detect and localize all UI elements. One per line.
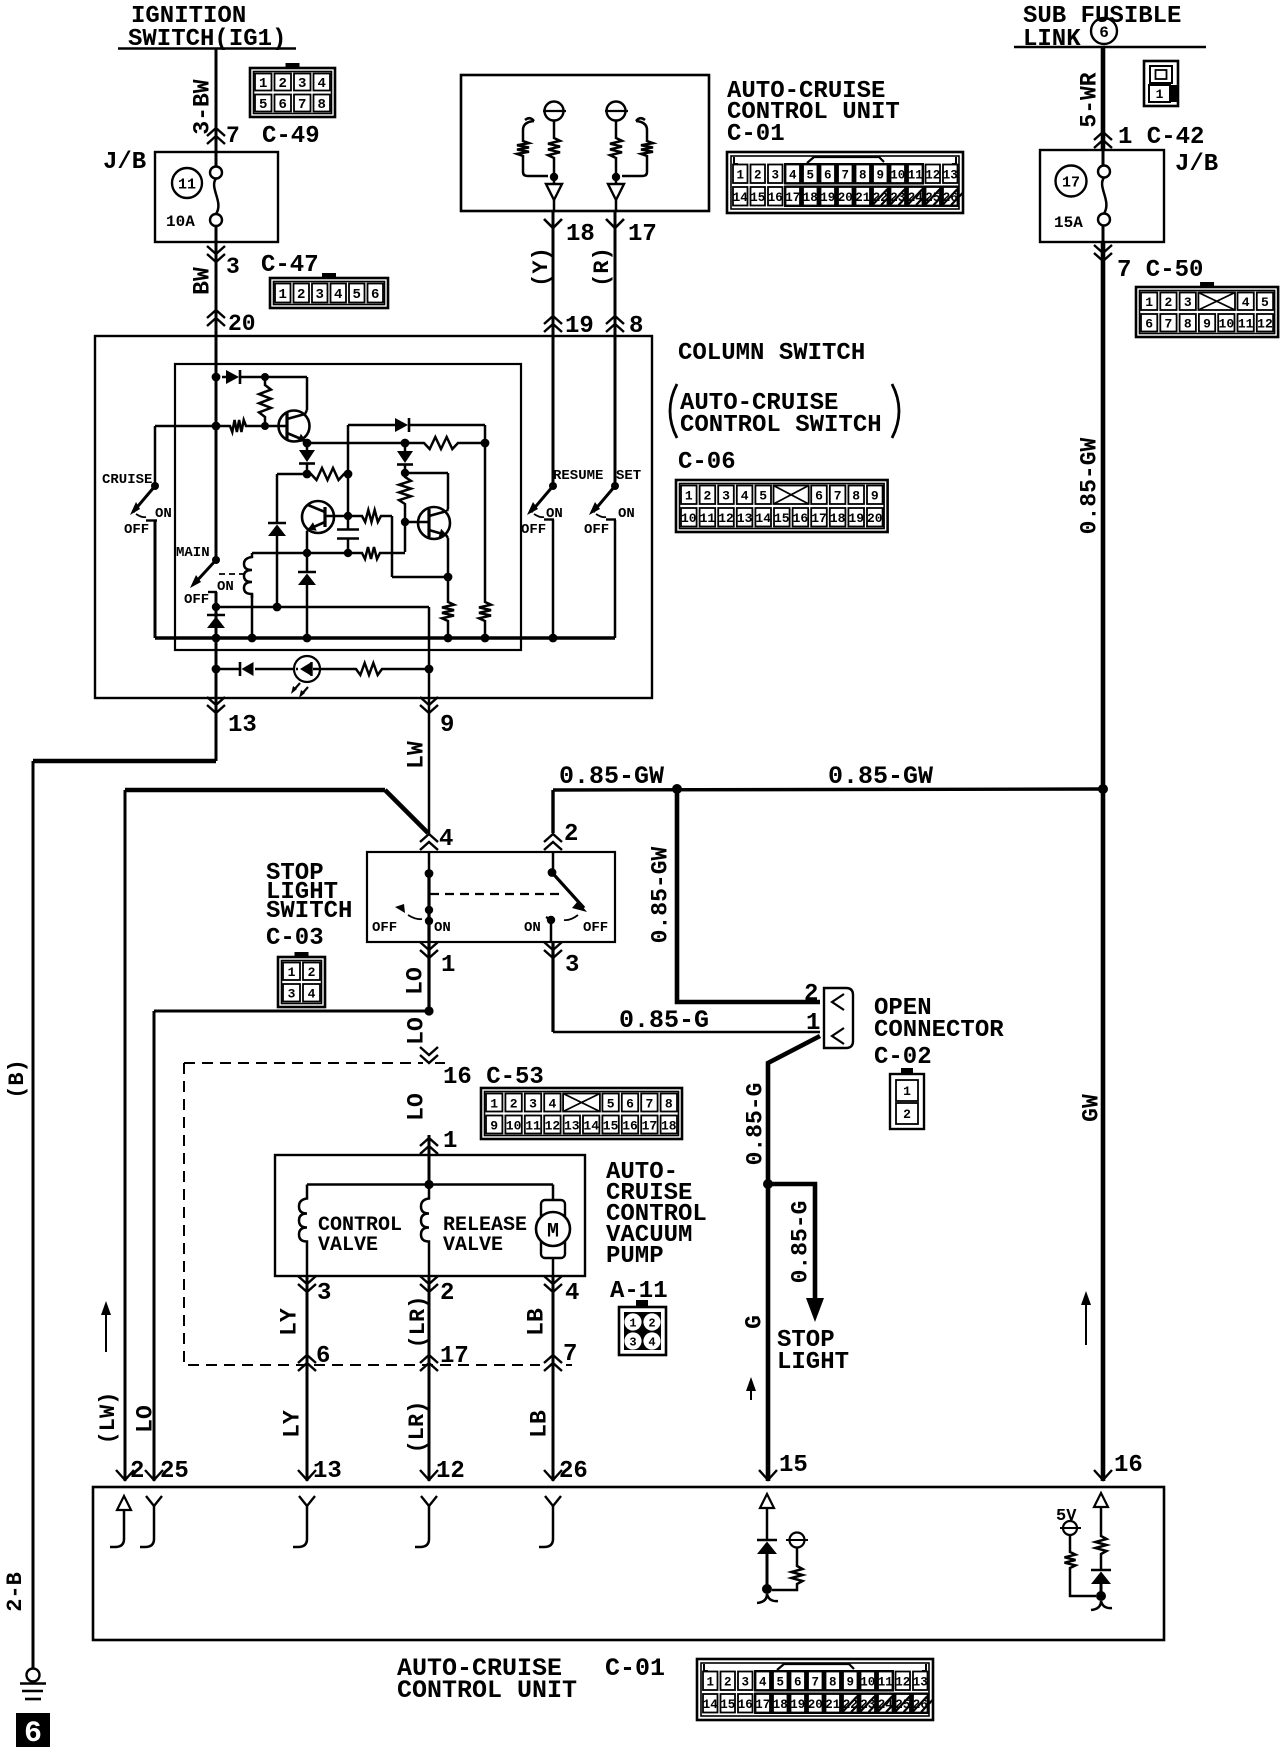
svg-text:3: 3 xyxy=(722,489,730,504)
pin 25 entry xyxy=(145,1470,163,1480)
terminal pin 13 xyxy=(299,1496,315,1506)
svg-text:3: 3 xyxy=(226,254,240,280)
svg-text:CONTROL UNIT: CONTROL UNIT xyxy=(397,1676,577,1705)
svg-text:8: 8 xyxy=(665,1096,673,1111)
svg-text:13: 13 xyxy=(913,1676,928,1690)
svg-text:18: 18 xyxy=(830,511,846,526)
svg-text:7: 7 xyxy=(645,1096,653,1111)
svg-text:17: 17 xyxy=(440,1343,469,1370)
wire 0.85-G to stop light xyxy=(768,1184,815,1300)
junction cruise line x216 xyxy=(212,422,221,431)
open connector C-02 symbol xyxy=(824,988,853,1048)
svg-text:11: 11 xyxy=(700,511,716,526)
svg-text:3: 3 xyxy=(741,1676,749,1690)
svg-text:ON: ON xyxy=(434,920,451,936)
svg-text:COLUMN SWITCH: COLUMN SWITCH xyxy=(678,340,865,367)
svg-text:21: 21 xyxy=(825,1698,840,1712)
wire (R) xyxy=(614,258,617,336)
svg-text:BW: BW xyxy=(189,267,215,295)
wire x307 down through diode D8 xyxy=(306,531,309,572)
junction pin18 xyxy=(550,173,558,181)
wire Q2 base to node C xyxy=(325,515,348,518)
svg-text:RESUME: RESUME xyxy=(553,468,603,484)
wire CRUISE base line xyxy=(155,425,226,428)
wire Q3 collector up xyxy=(447,473,450,509)
connector C-50 xyxy=(1136,287,1278,337)
svg-text:7: 7 xyxy=(563,1341,577,1368)
svg-text:4: 4 xyxy=(548,1096,556,1111)
svg-text:SET: SET xyxy=(616,468,641,484)
svg-text:20: 20 xyxy=(228,311,256,337)
svg-text:VALVE: VALVE xyxy=(318,1234,378,1257)
svg-text:17: 17 xyxy=(785,191,800,205)
svg-text:OFF: OFF xyxy=(184,592,209,608)
svg-text:LO: LO xyxy=(402,967,428,995)
svg-text:9: 9 xyxy=(1203,317,1211,332)
svg-text:12: 12 xyxy=(718,511,734,526)
svg-text:2: 2 xyxy=(648,1317,655,1331)
resistor pin15 branch xyxy=(792,1562,803,1588)
svg-text:(B): (B) xyxy=(5,1059,30,1099)
svg-text:15: 15 xyxy=(774,511,790,526)
svg-text:9: 9 xyxy=(846,1676,854,1690)
pin 17 terminal xyxy=(615,200,618,211)
svg-text:10: 10 xyxy=(681,511,697,526)
resistor R7 vertical xyxy=(399,473,411,508)
svg-text:4: 4 xyxy=(308,987,316,1002)
pole1 OFF arrow xyxy=(395,904,405,913)
svg-text:13: 13 xyxy=(313,1458,342,1485)
svg-text:1: 1 xyxy=(1145,295,1153,310)
svg-text:2: 2 xyxy=(510,1096,518,1111)
diode D3 xyxy=(268,522,286,525)
pin 2 entry xyxy=(116,1470,134,1480)
wire ignition feed inside column switch xyxy=(215,336,218,560)
svg-text:19: 19 xyxy=(820,191,835,205)
svg-text:LO: LO xyxy=(403,1017,429,1045)
box column switch inner xyxy=(175,364,521,650)
pin 4 chevron xyxy=(420,834,438,842)
svg-text:6: 6 xyxy=(794,1676,802,1690)
svg-text:5: 5 xyxy=(259,97,267,113)
junction pin17 xyxy=(612,173,620,181)
terminal circle pin17 branch xyxy=(607,102,626,121)
svg-text:15: 15 xyxy=(779,1452,808,1479)
terminal circle pin18 branch xyxy=(545,102,564,121)
box STOP LIGHT SWITCH xyxy=(367,852,615,942)
wire 0.85-G from open connector xyxy=(768,1036,820,1481)
transistor Q2 xyxy=(302,501,334,533)
svg-text:10: 10 xyxy=(1219,317,1235,332)
LED indicator branch xyxy=(212,665,221,674)
junction x448 y577 xyxy=(444,573,453,582)
transistor Q1 xyxy=(279,411,310,442)
svg-text:26: 26 xyxy=(559,1458,588,1485)
svg-text:20: 20 xyxy=(867,511,883,526)
svg-text:1: 1 xyxy=(903,1084,911,1099)
resistor pin18 branch xyxy=(553,120,556,134)
svg-text:(Y): (Y) xyxy=(529,247,554,287)
pin 6 chevron xyxy=(298,1355,316,1363)
svg-text:12: 12 xyxy=(436,1458,465,1485)
svg-text:9: 9 xyxy=(490,1118,498,1133)
svg-text:3: 3 xyxy=(771,169,779,183)
pump pin wires xyxy=(306,1256,309,1277)
svg-text:C-01: C-01 xyxy=(605,1654,665,1683)
wire x348 up and diode D4 to x485 xyxy=(347,425,350,474)
svg-text:6: 6 xyxy=(824,169,832,183)
svg-text:7: 7 xyxy=(811,1676,819,1690)
fuse 11 10A xyxy=(172,168,202,198)
svg-text:C-47: C-47 xyxy=(261,252,319,279)
connector C-49 xyxy=(250,68,335,117)
wire BW xyxy=(215,242,218,336)
terminal pin 25 xyxy=(146,1496,162,1506)
wire pump feed xyxy=(428,1135,431,1184)
svg-text:C-01: C-01 xyxy=(727,121,785,148)
svg-text:OFF: OFF xyxy=(372,920,397,936)
svg-text:9: 9 xyxy=(876,169,884,183)
fuse 17 15A xyxy=(1056,166,1087,197)
svg-text:14: 14 xyxy=(583,1118,599,1133)
svg-text:(LR): (LR) xyxy=(406,1296,431,1349)
svg-text:11: 11 xyxy=(178,177,196,194)
svg-text:LY: LY xyxy=(276,1308,302,1336)
svg-text:MAIN: MAIN xyxy=(176,545,210,561)
svg-text:(LR): (LR) xyxy=(405,1401,430,1454)
svg-text:4: 4 xyxy=(565,1280,579,1307)
svg-text:25: 25 xyxy=(160,1458,189,1485)
box A-11 dashed enclosure xyxy=(184,1063,572,1365)
svg-text:17: 17 xyxy=(1062,175,1080,192)
svg-text:C-02: C-02 xyxy=(874,1044,932,1071)
resistor R5 to Q3 collector drop xyxy=(358,510,385,522)
connector C-06 xyxy=(676,480,888,532)
svg-text:0.85-GW: 0.85-GW xyxy=(647,846,673,943)
svg-text:1: 1 xyxy=(279,287,287,303)
svg-text:LO: LO xyxy=(403,1093,429,1121)
svg-text:17: 17 xyxy=(642,1118,658,1133)
junction x485 y443 xyxy=(481,439,490,448)
svg-text:13: 13 xyxy=(564,1118,580,1133)
svg-text:7 C-50: 7 C-50 xyxy=(1117,257,1203,284)
svg-text:15A: 15A xyxy=(1054,214,1083,232)
wire Q3 emitter down xyxy=(446,535,448,538)
svg-text:18: 18 xyxy=(566,221,595,248)
bottom rail of inner circuit xyxy=(155,636,615,640)
svg-text:5: 5 xyxy=(776,1676,784,1690)
svg-text:18: 18 xyxy=(803,191,818,205)
pin 20 chevron xyxy=(207,310,225,318)
connector C-02 icon xyxy=(890,1074,924,1129)
svg-text:3: 3 xyxy=(316,287,324,303)
svg-text:OFF: OFF xyxy=(583,920,608,936)
svg-text:2: 2 xyxy=(279,76,287,92)
wire 5-WR xyxy=(1101,48,1106,150)
svg-text:5-WR: 5-WR xyxy=(1076,72,1102,127)
svg-text:LB: LB xyxy=(523,1308,549,1336)
diode D6 on x405 xyxy=(404,443,407,451)
page marker 6 xyxy=(16,1713,50,1747)
svg-text:3: 3 xyxy=(629,1336,636,1350)
svg-text:1: 1 xyxy=(629,1317,636,1331)
svg-text:1: 1 xyxy=(706,1676,714,1690)
connector C-03 icon xyxy=(278,957,325,1007)
resistor R6 on y553 xyxy=(358,547,384,559)
box AUTO-CRUISE CONTROL VACUUM PUMP xyxy=(275,1155,585,1276)
connector C-53 xyxy=(481,1088,682,1139)
svg-text:OFF: OFF xyxy=(521,522,546,538)
svg-text:9: 9 xyxy=(871,489,879,504)
svg-text:4: 4 xyxy=(334,287,342,303)
transistor Q3 xyxy=(405,521,429,524)
resistor R2 xyxy=(226,420,250,432)
svg-text:13: 13 xyxy=(737,511,753,526)
svg-text:15: 15 xyxy=(720,1698,735,1712)
resistor R_led xyxy=(352,663,386,675)
connector C-01 (bottom) xyxy=(697,1659,933,1720)
svg-text:5: 5 xyxy=(353,287,361,303)
flow arrow (G) xyxy=(750,1385,752,1400)
svg-text:1: 1 xyxy=(443,1128,457,1155)
pin 3 chevron xyxy=(306,1276,309,1481)
pin 17 chevron xyxy=(420,1355,438,1363)
svg-text:LINK: LINK xyxy=(1023,26,1081,53)
svg-text:20: 20 xyxy=(808,1698,823,1712)
svg-text:8: 8 xyxy=(318,97,326,113)
svg-text:0.85-G: 0.85-G xyxy=(742,1083,768,1166)
pin 16 chevron C-53 xyxy=(420,1047,438,1055)
flow arrow (GW) xyxy=(1085,1302,1087,1345)
pin 16 entry xyxy=(1094,1470,1112,1480)
resistor pin16 xyxy=(1096,1532,1107,1558)
svg-text:2: 2 xyxy=(754,169,762,183)
junction block J/B (right) xyxy=(1040,150,1164,242)
svg-text:7: 7 xyxy=(1165,317,1173,332)
svg-text:11: 11 xyxy=(908,169,923,183)
wire (Y) xyxy=(552,258,555,336)
svg-text:GW: GW xyxy=(1078,1094,1104,1122)
resistor R9 vertical to rail xyxy=(442,598,454,625)
pump motor M xyxy=(552,1185,555,1201)
wire y443 to resistor R3 xyxy=(307,442,405,445)
svg-text:J/B: J/B xyxy=(1175,151,1218,178)
svg-text:2: 2 xyxy=(1165,295,1173,310)
svg-text:3: 3 xyxy=(298,76,306,92)
svg-text:CONNECTOR: CONNECTOR xyxy=(874,1017,1004,1044)
svg-text:12: 12 xyxy=(1257,317,1273,332)
svg-text:2: 2 xyxy=(130,1458,144,1485)
svg-text:6: 6 xyxy=(1145,317,1153,332)
wire to Q1 collector xyxy=(265,376,307,379)
svg-text:2: 2 xyxy=(703,489,711,504)
svg-text:C-03: C-03 xyxy=(266,925,324,952)
svg-text:8: 8 xyxy=(829,1676,837,1690)
wire y607 MAIN to x429 xyxy=(216,606,429,609)
svg-text:2: 2 xyxy=(564,821,578,848)
relay coil xyxy=(244,553,252,598)
tail pin15 xyxy=(757,1594,778,1603)
svg-text:17: 17 xyxy=(811,511,827,526)
junction block J/B (left) xyxy=(155,152,278,242)
pin 7 chevron xyxy=(544,1355,562,1363)
pin 9 chevron xyxy=(428,650,431,698)
pin 1 chevron C-42 xyxy=(1094,132,1112,140)
stop light switch pole 1 (closed) xyxy=(428,852,431,873)
svg-text:13: 13 xyxy=(943,169,958,183)
svg-text:11: 11 xyxy=(1238,317,1254,332)
svg-text:4: 4 xyxy=(439,826,453,853)
svg-text:16: 16 xyxy=(793,511,809,526)
svg-text:2: 2 xyxy=(804,981,818,1008)
svg-text:10: 10 xyxy=(890,169,905,183)
svg-text:ON: ON xyxy=(524,920,541,936)
diode D2 xyxy=(306,443,309,450)
connector A-11 icon xyxy=(619,1307,666,1355)
diode pin15 xyxy=(757,1539,777,1542)
svg-text:6: 6 xyxy=(316,1343,330,1370)
svg-text:ON: ON xyxy=(155,506,172,522)
svg-text:14: 14 xyxy=(755,511,771,526)
pin 15 internal circuit xyxy=(760,1494,774,1508)
svg-text:G: G xyxy=(741,1315,767,1329)
svg-text:SWITCH: SWITCH xyxy=(266,898,352,925)
svg-text:M: M xyxy=(547,1221,559,1244)
svg-text:16: 16 xyxy=(768,191,783,205)
stop light switch pole 2 (open) xyxy=(552,852,555,872)
svg-text:10: 10 xyxy=(860,1676,875,1690)
pin 7 chevron C-49 xyxy=(207,128,225,136)
svg-text:C-06: C-06 xyxy=(678,449,736,476)
svg-text:19: 19 xyxy=(790,1698,805,1712)
svg-text:LW: LW xyxy=(403,741,429,769)
flow arrow (LW) xyxy=(105,1312,107,1352)
svg-text:1: 1 xyxy=(806,1010,820,1037)
pin 1 pump chevron xyxy=(420,1138,438,1146)
svg-text:OFF: OFF xyxy=(584,522,609,538)
svg-text:CRUISE: CRUISE xyxy=(102,472,152,488)
connector C-01 (top) xyxy=(727,152,963,213)
svg-text:4: 4 xyxy=(759,1676,767,1690)
svg-text:5: 5 xyxy=(1261,295,1269,310)
arrow out pin17 xyxy=(608,184,624,200)
junction 0.85-GW xyxy=(672,784,682,794)
svg-text:0.85-G: 0.85-G xyxy=(787,1201,813,1284)
pin 19 chevron xyxy=(544,316,562,324)
svg-text:(R): (R) xyxy=(590,247,615,287)
svg-text:OFF: OFF xyxy=(124,522,149,538)
svg-text:3: 3 xyxy=(317,1280,331,1307)
svg-text:16: 16 xyxy=(1114,1452,1143,1479)
pin 16 internal circuit xyxy=(1094,1493,1108,1507)
pin 4 chevron xyxy=(552,1276,555,1481)
connector C-42 icon xyxy=(1144,61,1178,106)
svg-text:VALVE: VALVE xyxy=(443,1234,503,1257)
wire (LW) branch to pin2 xyxy=(125,788,385,793)
svg-text:7: 7 xyxy=(226,123,240,149)
svg-text:18: 18 xyxy=(661,1118,677,1133)
arrow out pin18 xyxy=(546,184,562,200)
mechanical link dashed xyxy=(430,893,560,895)
junction R1 bottom xyxy=(261,422,269,430)
svg-text:20: 20 xyxy=(838,191,853,205)
svg-text:3: 3 xyxy=(288,987,296,1002)
svg-text:1: 1 xyxy=(288,965,296,980)
svg-text:2: 2 xyxy=(440,1280,454,1307)
pin 15 entry xyxy=(759,1470,777,1480)
pin 1 chevron xyxy=(427,942,430,1011)
pin 13 chevron xyxy=(215,698,218,761)
svg-text:17: 17 xyxy=(628,221,657,248)
svg-text:3-BW: 3-BW xyxy=(189,79,215,134)
pump internal bus xyxy=(307,1183,553,1186)
svg-text:21: 21 xyxy=(855,191,870,205)
tail pin16 xyxy=(1091,1601,1112,1610)
wire (B) ground run xyxy=(33,759,216,764)
svg-text:6: 6 xyxy=(24,1717,42,1748)
pin 26 entry xyxy=(544,1470,562,1480)
pin 3 chevron xyxy=(551,942,554,1032)
svg-text:1: 1 xyxy=(490,1096,498,1111)
junction node C (Q2 base node top) xyxy=(344,470,353,479)
svg-text:19: 19 xyxy=(848,511,864,526)
svg-text:7: 7 xyxy=(834,489,842,504)
pin 2 chevron xyxy=(544,834,562,842)
wire x485 down to rail resistor R8 xyxy=(484,443,487,598)
wire LO branch to pin 25 xyxy=(154,1010,429,1013)
svg-text:12: 12 xyxy=(545,1118,561,1133)
svg-text:1 C-42: 1 C-42 xyxy=(1118,124,1204,151)
svg-text:6: 6 xyxy=(279,97,287,113)
svg-text:16: 16 xyxy=(738,1698,753,1712)
box COLUMN SWITCH outer xyxy=(95,336,652,698)
svg-text:1: 1 xyxy=(259,76,267,92)
svg-text:4: 4 xyxy=(318,76,326,92)
svg-text:0.85-G: 0.85-G xyxy=(619,1006,709,1035)
svg-text:5: 5 xyxy=(607,1096,615,1111)
svg-text:0.85-GW: 0.85-GW xyxy=(828,762,933,791)
svg-text:12: 12 xyxy=(925,169,940,183)
control valve coil xyxy=(299,1185,307,1256)
resistor 5V branch xyxy=(1065,1548,1076,1572)
svg-text:3: 3 xyxy=(1184,295,1192,310)
wire 0.85-GW right xyxy=(1101,336,1106,789)
junction node B xyxy=(303,470,312,479)
svg-text:ON: ON xyxy=(217,579,234,595)
svg-text:2: 2 xyxy=(308,965,316,980)
junction stop light branch xyxy=(763,1179,773,1189)
svg-text:16: 16 xyxy=(622,1118,638,1133)
pin 18 terminal xyxy=(553,200,556,211)
svg-text:14: 14 xyxy=(733,191,749,205)
diode D1 xyxy=(222,376,226,379)
svg-text:LB: LB xyxy=(526,1410,552,1438)
svg-text:11: 11 xyxy=(525,1118,541,1133)
terminal pin 26 xyxy=(545,1496,561,1506)
junction R1 top xyxy=(261,373,269,381)
ground symbol xyxy=(27,1669,40,1682)
svg-text:0.85-GW: 0.85-GW xyxy=(559,762,664,791)
capacitor C1 xyxy=(347,516,350,529)
svg-text:6: 6 xyxy=(1099,24,1109,42)
wire Q1 emitter to junction xyxy=(306,441,307,443)
svg-text:6: 6 xyxy=(815,489,823,504)
svg-text:12: 12 xyxy=(895,1676,910,1690)
terminal circle pin15 branch xyxy=(790,1533,805,1548)
svg-text:LY: LY xyxy=(279,1410,305,1438)
wire rail up to SET contact xyxy=(614,520,617,638)
svg-text:4: 4 xyxy=(648,1336,655,1350)
